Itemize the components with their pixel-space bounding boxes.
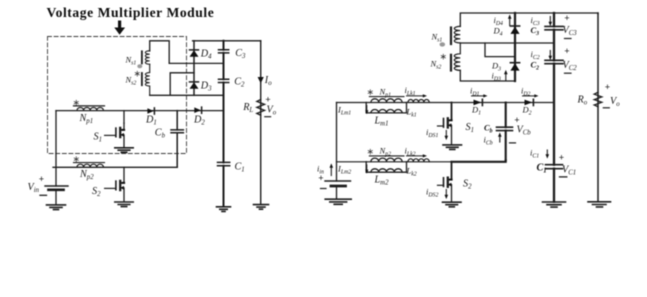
current arrow iD1 — [472, 94, 488, 97]
svg-text:∗: ∗ — [134, 69, 142, 79]
diode D1 right — [474, 99, 483, 105]
winding Np2 — [74, 163, 105, 168]
svg-text:∗: ∗ — [440, 52, 448, 62]
capacitor C2 right — [545, 60, 563, 63]
current arrow iC1 — [546, 150, 550, 159]
capacitor C3 — [219, 50, 229, 53]
ground under C1 right — [543, 202, 566, 207]
svg-text:+: + — [39, 175, 44, 185]
capacitor C3 right — [545, 26, 563, 29]
capacitor C1 — [218, 162, 230, 165]
primary section Np2 Lm2 — [366, 156, 406, 172]
primary section Np1 Lm1 — [366, 97, 406, 113]
minus sign Vin right — [321, 188, 327, 190]
capacitor Cb right branch — [505, 103, 507, 161]
ground under Vin — [47, 205, 66, 210]
current arrow Io — [258, 77, 264, 83]
current arrow ILm1 — [365, 106, 368, 115]
minus sign VC1 — [560, 176, 567, 178]
wire load branch right — [597, 13, 599, 202]
winding Ns2 right — [451, 43, 460, 71]
svg-text:Voltage Multiplier Module: Voltage Multiplier Module — [47, 5, 215, 20]
minus sign VCb — [510, 142, 516, 144]
switch S2 right mosfet — [438, 162, 453, 202]
capacitor C2 — [219, 79, 229, 82]
svg-text:+: + — [559, 153, 564, 163]
ground under load right — [588, 202, 611, 207]
minus sign VC2 — [565, 72, 572, 74]
current arrow iD4 — [508, 14, 512, 25]
wire Ns2 tap line — [170, 73, 194, 96]
ground under C1 — [217, 207, 231, 212]
wire top rail right circuit — [460, 13, 598, 27]
diode D1 — [147, 108, 154, 114]
wire lower rail (Np2 row) — [53, 166, 177, 168]
svg-text:∗: ∗ — [367, 146, 375, 156]
current arrow iLk1 — [407, 94, 428, 97]
current arrow ILm2 — [365, 165, 368, 174]
wire load branch — [260, 41, 262, 204]
svg-text:+: + — [605, 83, 610, 93]
wire tap rectangle to D3 — [485, 43, 515, 57]
diode D2 right — [525, 99, 534, 105]
switch S1 mosfet — [105, 111, 126, 148]
current arrow iLk2 — [407, 154, 428, 157]
switch S2 mosfet — [105, 167, 126, 201]
ground under S2 right — [443, 202, 462, 207]
wire Ns2 bottom to D3 anode — [460, 70, 515, 81]
diode D3 — [190, 82, 199, 89]
winding Ns2 (left) — [142, 64, 150, 95]
svg-text:+: + — [318, 174, 323, 184]
current arrow iDS2 — [445, 190, 449, 200]
wire main rail (Np1 row) — [56, 110, 224, 112]
minus sign Vo right — [603, 107, 609, 109]
resistor Ro — [594, 92, 602, 107]
winding Ns1 right — [451, 26, 460, 44]
dashed box voltage multiplier module — [48, 37, 187, 154]
polarity dot Ns1 — [137, 64, 142, 68]
polarity dot Ns1 right — [440, 42, 446, 46]
current arrow iD2 — [523, 94, 539, 97]
svg-text:+: + — [564, 47, 569, 57]
battery Vin left — [45, 111, 68, 205]
svg-text:∗: ∗ — [73, 154, 81, 164]
ground under S2 — [115, 202, 133, 207]
capacitor Cb right plates — [497, 127, 513, 130]
diode D4 right — [510, 26, 519, 34]
minus sign Vo — [265, 116, 271, 118]
current arrow iin — [330, 163, 334, 175]
current arrow iDS1 — [445, 131, 449, 141]
wire Cb bottom to lower rail — [452, 160, 506, 161]
wire Ns1 top to rail — [150, 41, 170, 64]
ground under load — [254, 205, 269, 210]
switch S1 right mosfet — [438, 103, 453, 145]
wire upper rail right circuit — [337, 102, 555, 104]
current arrow iC3 — [549, 17, 553, 27]
resistor RL — [257, 100, 265, 116]
diode D4 — [190, 50, 199, 57]
current arrow iD3 — [504, 70, 508, 81]
diode D2 — [194, 107, 201, 113]
diode D3 right — [510, 63, 519, 71]
wire capacitor stack C3 C2 C1 — [223, 41, 225, 207]
wire secondary mid tap to C3-C2 node — [460, 42, 554, 44]
svg-text:∗: ∗ — [367, 87, 375, 97]
svg-text:+: + — [564, 14, 569, 24]
ground under S1 right — [443, 145, 462, 150]
winding Lk2 — [408, 159, 429, 162]
battery Vin right — [325, 103, 351, 199]
minus sign VC3 — [565, 38, 572, 40]
winding Lk1 — [408, 99, 429, 102]
wire top output rail — [193, 40, 261, 42]
wire bottom secondary line — [150, 94, 224, 96]
winding Ns1 (left) — [142, 51, 150, 64]
title pointer arrow — [114, 21, 125, 35]
capacitor Cb branch — [176, 111, 178, 168]
wire mid node line — [169, 62, 223, 64]
ground under S1 — [115, 148, 133, 153]
current arrow iCb — [498, 132, 502, 142]
ground under Vin right — [325, 199, 351, 204]
capacitor C1 right — [546, 165, 563, 169]
wire diode branch D4 D3 — [193, 41, 195, 96]
minus sign Vin — [40, 194, 47, 196]
wire lower rail right circuit — [337, 161, 452, 163]
wire capacitor stack right C3 C2 C1 — [553, 13, 555, 202]
capacitor Cb plates — [171, 130, 183, 133]
wire diode branch D4 D3 right — [514, 13, 516, 81]
svg-text:∗: ∗ — [73, 97, 81, 107]
current arrow iC2 — [549, 51, 553, 61]
winding Np1 — [74, 106, 105, 111]
